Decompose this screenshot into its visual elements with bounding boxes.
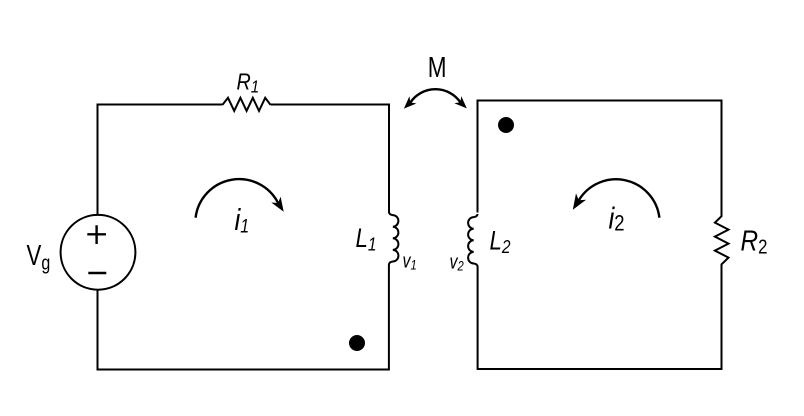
svg-text:M: M bbox=[428, 53, 447, 84]
mutual inductance arrow M arc bbox=[410, 89, 460, 102]
wire: right loop upper-left, top, upper-right bbox=[478, 101, 722, 213]
polarity dot left loop bbox=[349, 335, 365, 351]
current arrow i2 head bbox=[573, 193, 586, 209]
resistor R1 bbox=[223, 98, 271, 111]
minus sign of source bbox=[88, 272, 106, 274]
polarity dot right loop bbox=[498, 117, 514, 133]
mutual inductance arrow M left head bbox=[404, 96, 417, 108]
current arrow i1 arc bbox=[196, 179, 279, 218]
inductor L2 bbox=[468, 214, 477, 267]
wire: left loop lower-right, bottom, lower-left (to source) bbox=[98, 265, 389, 370]
voltage source Vg bbox=[61, 215, 136, 290]
current arrow i1 head bbox=[271, 197, 283, 212]
wire: right loop lower-left, bottom, lower-right bbox=[478, 266, 722, 370]
plus sign of source bbox=[87, 225, 106, 244]
resistor R2 bbox=[715, 209, 729, 266]
current arrow i2 arc bbox=[579, 179, 660, 217]
wire: left loop upper-left and top (to resistor) bbox=[98, 105, 223, 216]
wire: left loop top-right and upper-right (to inductor L1) bbox=[271, 105, 390, 213]
mutual inductance arrow M right head bbox=[454, 96, 467, 108]
inductor L1 bbox=[389, 212, 399, 265]
